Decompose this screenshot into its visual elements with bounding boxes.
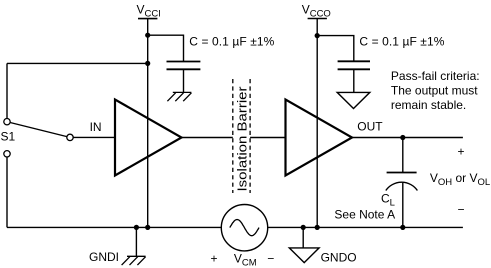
ground GNDO (triangle) <box>289 227 319 262</box>
svg-text:The output must: The output must <box>391 84 478 98</box>
svg-text:Pass-fail criteria:: Pass-fail criteria: <box>391 69 480 83</box>
junction CL bottom <box>400 225 405 230</box>
svg-text:C = 0.1 µF ±1%: C = 0.1 µF ±1% <box>189 35 274 49</box>
svg-text:S1: S1 <box>1 130 16 144</box>
svg-text:Isolation Barrier: Isolation Barrier <box>235 86 250 192</box>
junction VCCI-cap <box>145 33 150 38</box>
switch S1 <box>4 119 73 158</box>
svg-text:−: − <box>458 202 465 216</box>
node OUT wire <box>352 137 463 139</box>
node IN wire <box>73 136 116 138</box>
power symbol VCCI <box>138 19 157 228</box>
isolation barrier <box>233 79 250 193</box>
ground (triangle, below output capacitor) <box>337 92 370 108</box>
capacitor C input side <box>148 35 201 92</box>
AC source VCM <box>221 205 267 251</box>
wire isolation barrier to buffer U2 <box>250 137 286 139</box>
junction GNDI <box>134 225 139 230</box>
svg-text:C = 0.1 µF ±1%: C = 0.1 µF ±1% <box>359 35 444 49</box>
wire left rail upper segment <box>6 63 8 118</box>
svg-text:IN: IN <box>90 120 102 134</box>
svg-text:GNDO: GNDO <box>321 250 357 264</box>
svg-text:See Note A: See Note A <box>334 207 395 221</box>
svg-text:−: − <box>267 251 274 265</box>
capacitor CL load <box>386 138 418 228</box>
wire bottom rail left of VCM source <box>7 226 221 228</box>
junction OUT node <box>400 135 405 140</box>
op-amp buffer U1 (input side) <box>115 100 182 176</box>
svg-text:OUT: OUT <box>357 120 383 134</box>
svg-text:+: + <box>458 144 465 158</box>
wire top-left horizontal from VCCI rail to left rail <box>7 62 148 64</box>
junction VCCO-cap <box>315 33 320 38</box>
power symbol VCCO <box>308 19 327 228</box>
svg-text:+: + <box>211 251 218 265</box>
junction VCCO rail bottom <box>315 225 320 230</box>
capacitor C output side <box>317 36 370 93</box>
wire bottom rail right of VCM source <box>268 226 463 228</box>
junction GNDO <box>301 225 306 230</box>
wire left rail lower segment <box>6 157 8 227</box>
wire buffer U1 output to isolation barrier <box>182 137 233 139</box>
ground GNDI (hatched) <box>122 227 146 265</box>
svg-text:GNDI: GNDI <box>89 250 119 264</box>
ground (hatched, below input capacitor) <box>167 92 191 101</box>
junction VCCI-left rail <box>145 61 150 66</box>
op-amp buffer U2 (output side) <box>286 100 353 176</box>
svg-text:remain stable.: remain stable. <box>391 98 466 112</box>
junction VCCI rail bottom <box>145 225 150 230</box>
